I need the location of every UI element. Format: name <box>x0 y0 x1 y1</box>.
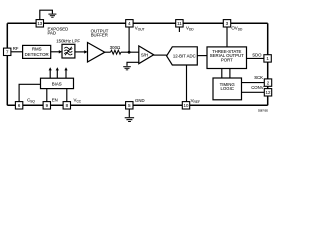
svg-text:DETECTOR: DETECTOR <box>25 52 49 57</box>
svg-text:GND: GND <box>135 98 145 103</box>
ground exposed pad symbol <box>48 14 56 18</box>
wire bias to Csq pin <box>19 84 40 101</box>
wire ADC to Vref pin <box>186 65 188 102</box>
svg-text:11: 11 <box>177 21 182 26</box>
wire serial port to SDO pin <box>247 57 264 59</box>
wire Vout pin to junction <box>128 27 130 52</box>
RMS detector block <box>23 45 51 58</box>
pin 8 <box>63 102 70 109</box>
pin 2 <box>264 79 271 86</box>
pin 4 <box>126 20 133 27</box>
arrowhead into LPF <box>59 50 62 53</box>
LPF filter block <box>62 44 75 58</box>
wire LPF to output buffer <box>75 51 85 53</box>
wire bottom rail <box>7 104 267 106</box>
svg-text:BIAS: BIAS <box>52 81 62 86</box>
svg-text:S/H: S/H <box>141 52 148 57</box>
wire Vcc pin to bias <box>66 89 68 102</box>
svg-text:SCK: SCK <box>254 75 263 80</box>
arrowhead into buffer <box>84 50 87 53</box>
bias arrow 1 <box>49 70 51 78</box>
svg-text:12: 12 <box>266 90 271 95</box>
label EXPOSED PAD <box>48 26 69 35</box>
svg-text:10: 10 <box>184 103 189 108</box>
label OUTPUT BUFFER <box>91 28 109 37</box>
wire S/H lower input to ground <box>127 62 139 66</box>
svg-text:12-BIT ADC: 12-BIT ADC <box>173 53 196 58</box>
bias arrow 2 <box>56 70 58 78</box>
svg-text:PORT: PORT <box>221 57 233 62</box>
svg-text:13: 13 <box>37 21 42 26</box>
op-amp S/H triangle <box>139 46 154 64</box>
wire Vdd stub <box>178 27 180 32</box>
wire OVdd to serial port <box>226 27 228 47</box>
pin 11 <box>176 20 183 27</box>
wire serial port to timing logic left <box>221 69 223 79</box>
wire S/H to ADC <box>154 54 167 56</box>
wire top rail <box>7 22 267 24</box>
node junction at Vout <box>128 51 131 54</box>
pin 5 <box>126 102 133 109</box>
bias block <box>41 78 74 88</box>
svg-text:LOGIC: LOGIC <box>221 86 234 91</box>
pin 3 <box>223 20 230 27</box>
pin 10 <box>182 102 189 109</box>
three-state serial output port block <box>207 47 247 69</box>
op-amp output buffer triangle <box>88 43 105 63</box>
svg-text:RF: RF <box>13 46 19 51</box>
timing logic block <box>213 78 242 100</box>
wire EN pin to bias <box>46 89 48 102</box>
svg-text:5587 BD: 5587 BD <box>258 109 268 113</box>
resistor 300 ohm zigzag <box>111 50 121 54</box>
svg-text:PAD: PAD <box>48 31 57 36</box>
arrowhead bias arrow 3 <box>64 67 67 70</box>
wire buffer to resistor <box>105 51 111 53</box>
wire GND pin to ground <box>128 109 130 117</box>
ADC block <box>167 47 198 65</box>
pin 9 <box>43 102 50 109</box>
svg-text:CONV: CONV <box>251 85 264 90</box>
wire left border <box>6 23 8 105</box>
ground S/H symbol <box>123 66 131 70</box>
wire ADC to serial port <box>197 55 207 57</box>
wire right border <box>267 23 269 105</box>
pin 6 <box>15 102 22 109</box>
wire RF input <box>11 51 23 53</box>
arrowhead bias arrow 2 <box>56 67 59 70</box>
pin 1 <box>264 55 271 62</box>
svg-text:150kHz LPF: 150kHz LPF <box>56 39 80 44</box>
svg-text:BUFFER: BUFFER <box>91 33 108 38</box>
wire timing logic to SCK pin <box>242 82 265 84</box>
svg-text:300Ω: 300Ω <box>110 45 121 50</box>
pin 12 <box>264 89 271 96</box>
wire serial port to timing logic right <box>229 69 231 79</box>
arrowhead bias arrow 1 <box>49 67 52 70</box>
wire exposed pad ground stem <box>40 10 53 20</box>
bias arrow 3 <box>65 70 67 78</box>
wire timing logic to CONV pin <box>242 91 265 93</box>
wire resistor to S/H <box>121 51 139 53</box>
pin 7 <box>4 48 11 55</box>
ground GND pin symbol <box>125 117 134 122</box>
pin 13 <box>36 20 43 27</box>
svg-text:SDO: SDO <box>252 52 262 57</box>
wire RMS detector to LPF <box>51 51 60 53</box>
svg-text:EN: EN <box>52 98 58 103</box>
